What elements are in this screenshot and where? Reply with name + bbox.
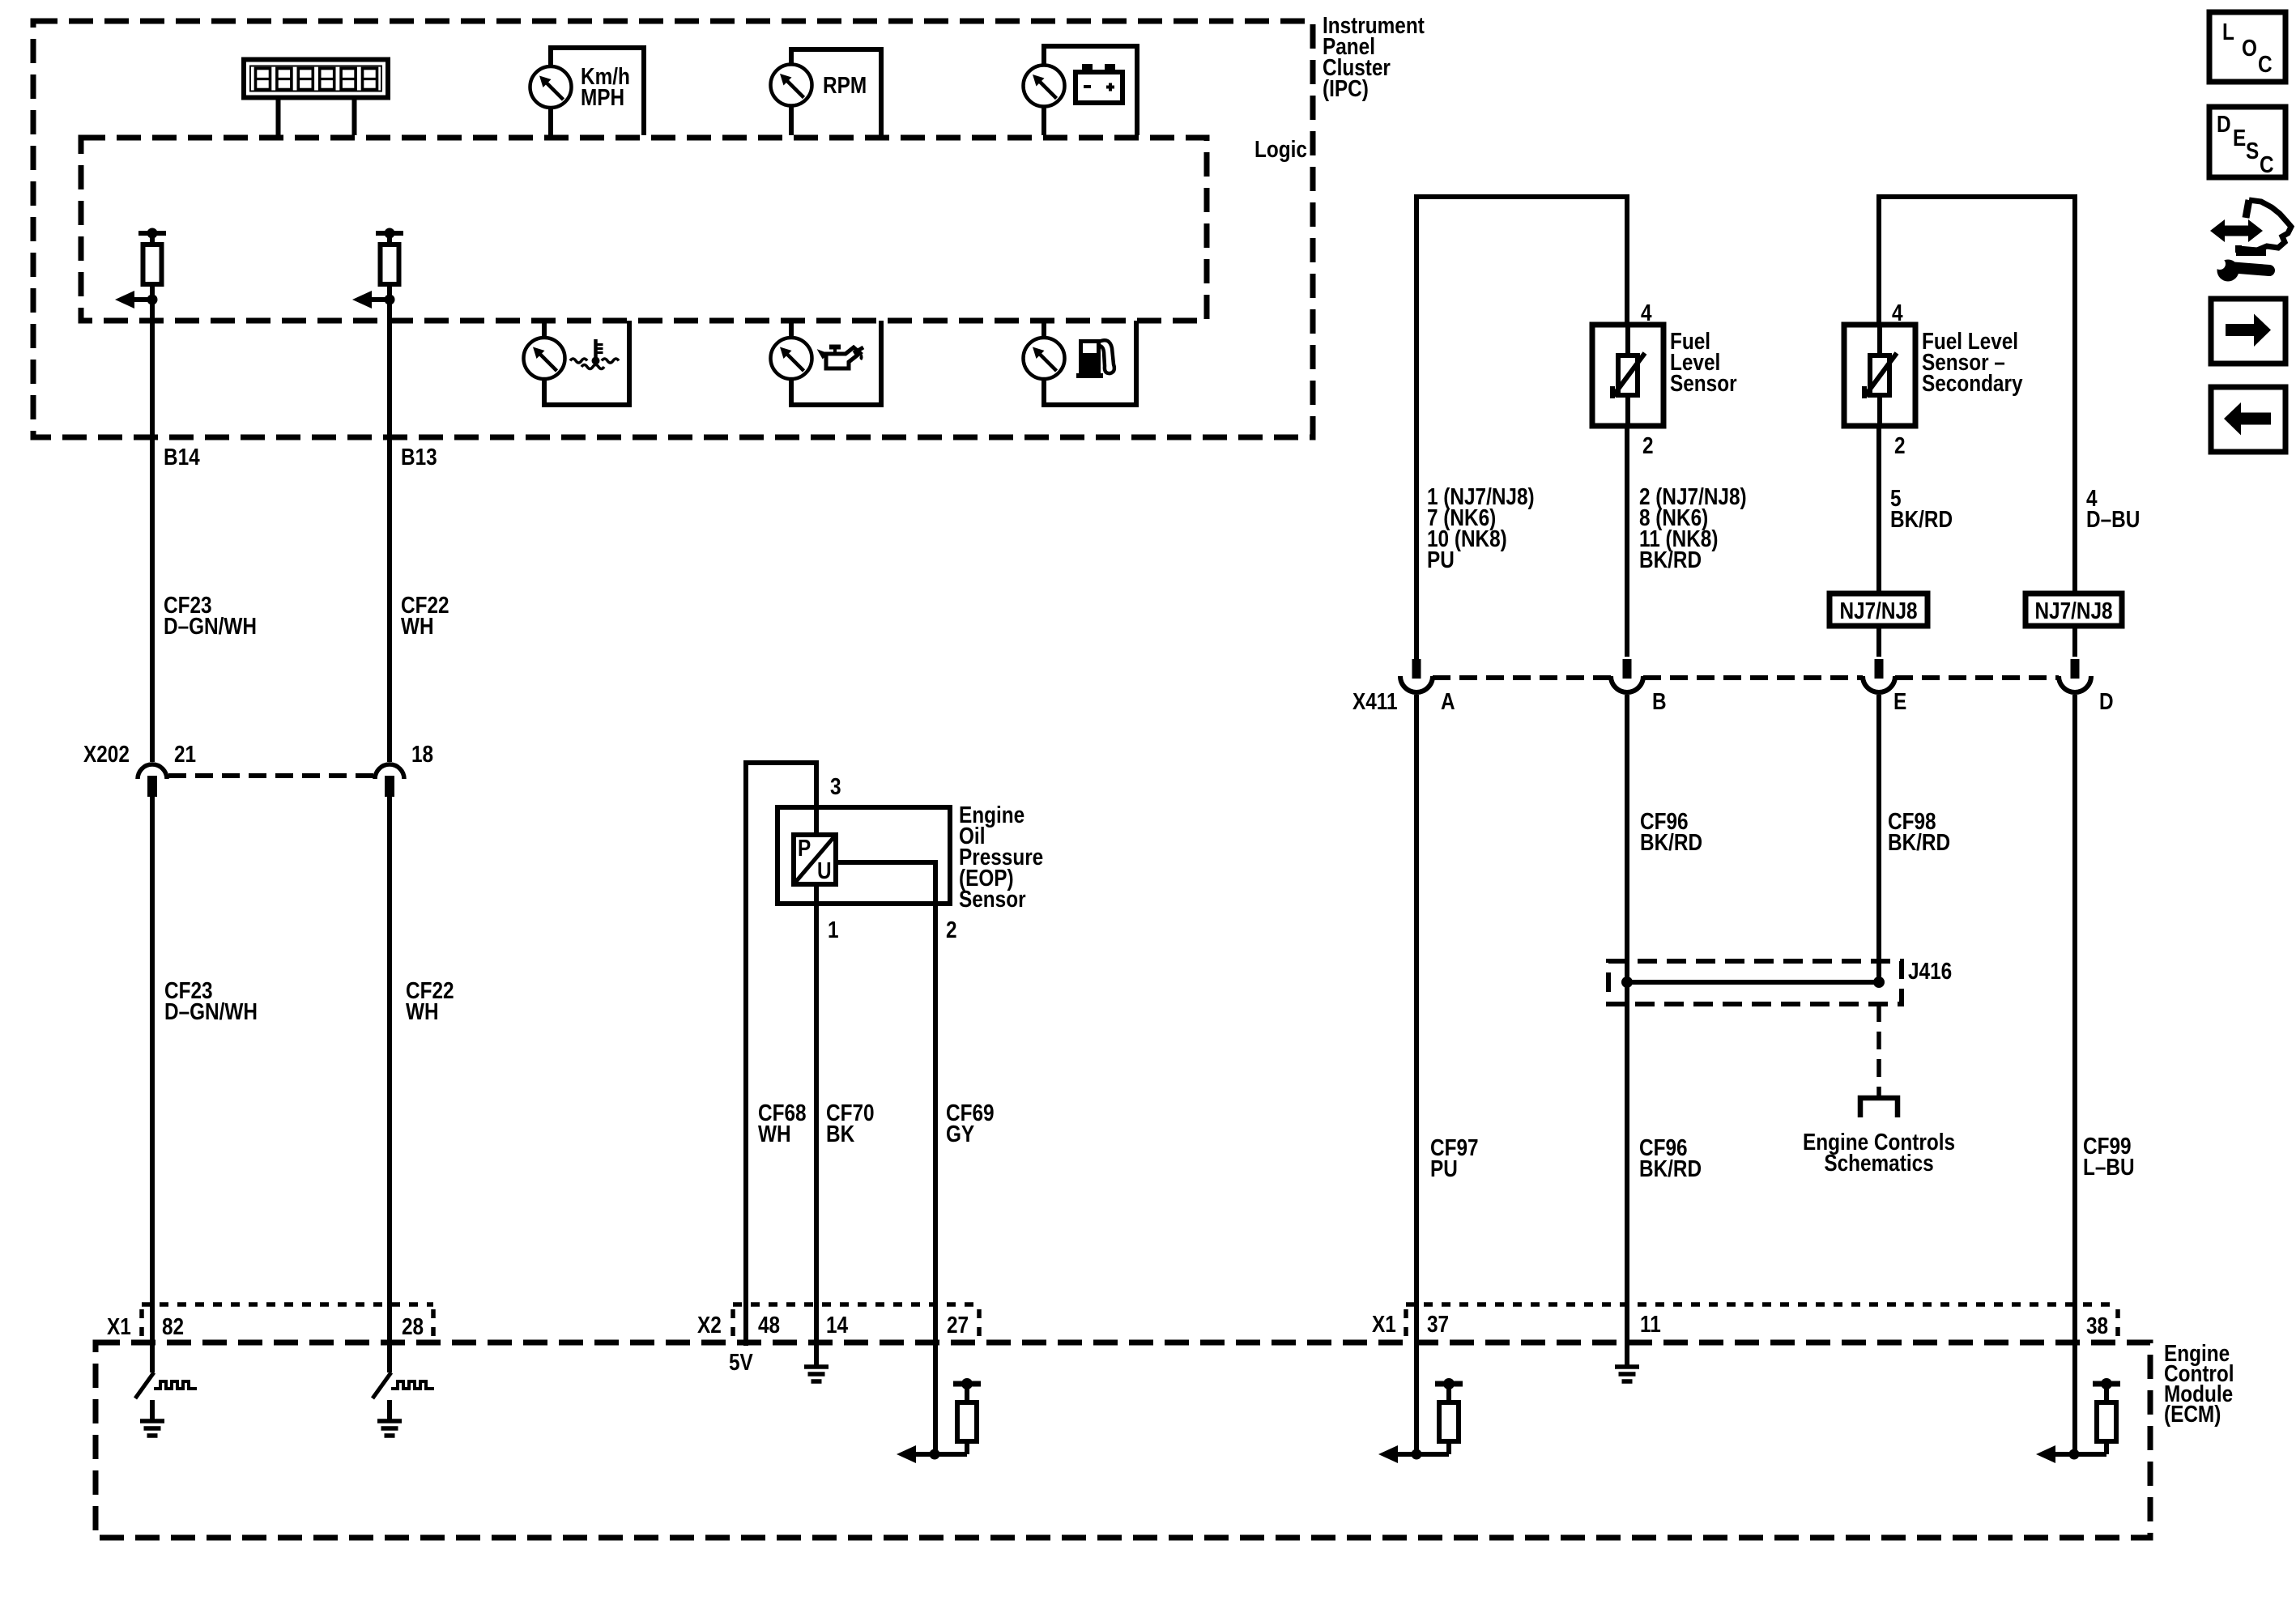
svg-text:NJ7/NJ8: NJ7/NJ8 xyxy=(2034,598,2112,623)
ECM switch to ground pin 28 xyxy=(373,1346,434,1436)
svg-text:WH: WH xyxy=(406,998,439,1024)
ground at pin 14 xyxy=(804,1346,829,1381)
svg-text:E: E xyxy=(2233,125,2246,151)
svg-text:14: 14 xyxy=(826,1312,848,1338)
NJ7/NJ8 option box D xyxy=(2026,594,2122,626)
svg-text:L–BU: L–BU xyxy=(2083,1154,2135,1180)
engine oil pressure gauge xyxy=(771,321,882,405)
svg-text:28: 28 xyxy=(402,1313,424,1339)
next page arrow icon xyxy=(2211,299,2285,364)
svg-text:S: S xyxy=(2246,138,2259,164)
svg-text:C: C xyxy=(2260,151,2274,177)
svg-text:PU: PU xyxy=(1427,547,1455,572)
svg-text:D–GN/WH: D–GN/WH xyxy=(164,998,258,1024)
wire fuel level sensor secondary loop (pin D branch and pin 4 feed) xyxy=(1879,197,2075,594)
svg-text:GY: GY xyxy=(946,1121,974,1147)
svg-text:BK/RD: BK/RD xyxy=(1888,829,1950,855)
EOP pin labels xyxy=(828,773,957,943)
connector X1 left xyxy=(107,1304,433,1339)
svg-text:21: 21 xyxy=(174,741,196,767)
splice J416 xyxy=(1608,958,1952,1004)
NJ7/NJ8 option box E xyxy=(1830,594,1928,626)
wire B14 / CF23 upper xyxy=(150,300,155,762)
EOP sensor label xyxy=(959,802,1043,912)
svg-text:18: 18 xyxy=(411,741,433,767)
svg-text:O: O xyxy=(2242,35,2257,61)
svg-text:BK: BK xyxy=(826,1121,855,1147)
svg-text:B14: B14 xyxy=(164,444,200,470)
fuel level sensor xyxy=(1592,325,1663,426)
wire CF23 lower xyxy=(150,797,155,1346)
svg-text:4: 4 xyxy=(1641,300,1652,326)
ground at pin 11 xyxy=(1615,1346,1639,1381)
svg-text:NJ7/NJ8: NJ7/NJ8 xyxy=(1839,598,1917,623)
wire B CF96 xyxy=(1625,695,1629,1346)
svg-text:82: 82 xyxy=(162,1313,184,1339)
connector X202 xyxy=(83,741,433,797)
Instrument Panel Cluster (IPC) box xyxy=(33,21,1313,437)
svg-text:D–BU: D–BU xyxy=(2086,506,2140,532)
previous page arrow icon xyxy=(2211,387,2285,452)
EOP pin 2 wire CF69 xyxy=(836,862,935,1454)
EOP sensor box xyxy=(777,807,950,904)
wire A CF97 xyxy=(1414,695,1419,1346)
Engine Control Module (ECM) box xyxy=(96,1343,2150,1538)
svg-text:U: U xyxy=(817,857,832,883)
svg-text:48: 48 xyxy=(758,1312,780,1338)
svg-text:X2: X2 xyxy=(697,1312,722,1338)
svg-text:Sensor: Sensor xyxy=(1670,370,1737,396)
svg-text:PU: PU xyxy=(1430,1155,1458,1181)
wire CF68 WH with hook to EOP pin 3 xyxy=(746,763,816,1346)
svg-text:2: 2 xyxy=(946,917,957,943)
svg-text:X1: X1 xyxy=(107,1313,131,1339)
wire D CF99 xyxy=(2072,695,2077,1346)
tachometer gauge RPM xyxy=(771,49,882,135)
svg-text:C: C xyxy=(2258,51,2273,77)
ECM pull-up at pin 27 xyxy=(897,1378,981,1463)
svg-text:1: 1 xyxy=(828,917,839,943)
svg-text:BK/RD: BK/RD xyxy=(1639,547,1702,572)
wire NJ7/NJ8 to pin E xyxy=(1876,626,1881,657)
svg-text:WH: WH xyxy=(401,613,434,639)
ECM switch to ground pin 82 xyxy=(135,1346,197,1436)
EOP pin 1 wire CF70 xyxy=(814,884,819,1346)
EOP wire labels xyxy=(758,1100,807,1147)
connector X2 xyxy=(697,1304,979,1338)
svg-text:X1: X1 xyxy=(1372,1311,1396,1337)
EOP P/U transducer xyxy=(794,807,836,884)
svg-text:5V: 5V xyxy=(729,1349,753,1375)
svg-text:D–GN/WH: D–GN/WH xyxy=(164,613,257,639)
svg-text:27: 27 xyxy=(947,1312,969,1338)
fuel level gauge xyxy=(1024,321,1137,405)
svg-text:2: 2 xyxy=(1894,432,1906,458)
svg-text:X202: X202 xyxy=(83,741,130,767)
svg-text:11: 11 xyxy=(1640,1311,1661,1337)
svg-text:X411: X411 xyxy=(1352,688,1398,714)
svg-text:B13: B13 xyxy=(401,444,437,470)
fuel level sensor secondary xyxy=(1844,325,1915,426)
svg-text:Secondary: Secondary xyxy=(1922,370,2023,396)
wire CF22 lower xyxy=(387,797,392,1346)
wire B13 / CF22 upper xyxy=(387,300,392,762)
wire fuel level sensor loop (pin A branch and pin 4 feed) xyxy=(1416,197,1627,678)
IPC gauge driver resistor B13 xyxy=(352,228,403,309)
svg-text:Logic: Logic xyxy=(1254,136,1307,162)
svg-text:38: 38 xyxy=(2086,1313,2108,1338)
svg-text:BK/RD: BK/RD xyxy=(1639,1155,1702,1181)
IPC label xyxy=(1323,12,1425,101)
svg-text:D: D xyxy=(2099,688,2114,714)
ECM pull-up at pin 38 xyxy=(2036,1346,2120,1463)
wire pin labels above X411 xyxy=(1427,483,1535,572)
svg-text:D: D xyxy=(2217,111,2231,137)
svg-text:3: 3 xyxy=(830,773,841,799)
svg-text:E: E xyxy=(1893,688,1906,714)
Logic box xyxy=(81,138,1207,321)
svg-text:J416: J416 xyxy=(1908,958,1952,984)
svg-text:(IPC): (IPC) xyxy=(1323,75,1369,101)
svg-text:Sensor: Sensor xyxy=(959,886,1026,912)
svg-text:B: B xyxy=(1652,688,1667,714)
connector X411 xyxy=(1352,659,2114,714)
svg-text:A: A xyxy=(1441,688,1455,714)
svg-text:P: P xyxy=(798,835,811,861)
svg-text:BK/RD: BK/RD xyxy=(1890,506,1953,532)
bottom wire labels xyxy=(1430,1134,1479,1181)
svg-text:(ECM): (ECM) xyxy=(2164,1401,2221,1427)
svg-text:RPM: RPM xyxy=(823,72,867,98)
ECM label xyxy=(2164,1340,2234,1427)
svg-text:WH: WH xyxy=(758,1121,791,1147)
coolant temperature gauge xyxy=(524,321,630,405)
battery voltage gauge xyxy=(1024,46,1138,135)
off-page reference to Engine Controls Schematics xyxy=(1860,1004,1898,1117)
ECM pull-up at pin 37 xyxy=(1378,1346,1463,1463)
wrench / connector icon xyxy=(2210,200,2291,282)
svg-text:BK/RD: BK/RD xyxy=(1640,829,1702,855)
odometer display xyxy=(244,60,388,136)
wire NJ7/NJ8 to pin D xyxy=(2072,626,2077,657)
wire sensor secondary pin 2 to NJ7/NJ8 xyxy=(1876,426,1881,594)
svg-text:MPH: MPH xyxy=(581,84,624,110)
svg-text:L: L xyxy=(2222,19,2234,45)
svg-text:2: 2 xyxy=(1642,432,1654,458)
wire E CF98 xyxy=(1876,695,1881,982)
speedometer gauge Km/h MPH xyxy=(530,48,645,135)
svg-text:37: 37 xyxy=(1427,1311,1449,1337)
IPC gauge driver resistor B14 xyxy=(115,228,166,309)
DESC icon xyxy=(2209,107,2285,177)
connector X1 right xyxy=(1372,1304,2118,1338)
svg-text:4: 4 xyxy=(1892,300,1903,326)
svg-text:Schematics: Schematics xyxy=(1824,1150,1933,1176)
LOC icon xyxy=(2209,12,2285,82)
